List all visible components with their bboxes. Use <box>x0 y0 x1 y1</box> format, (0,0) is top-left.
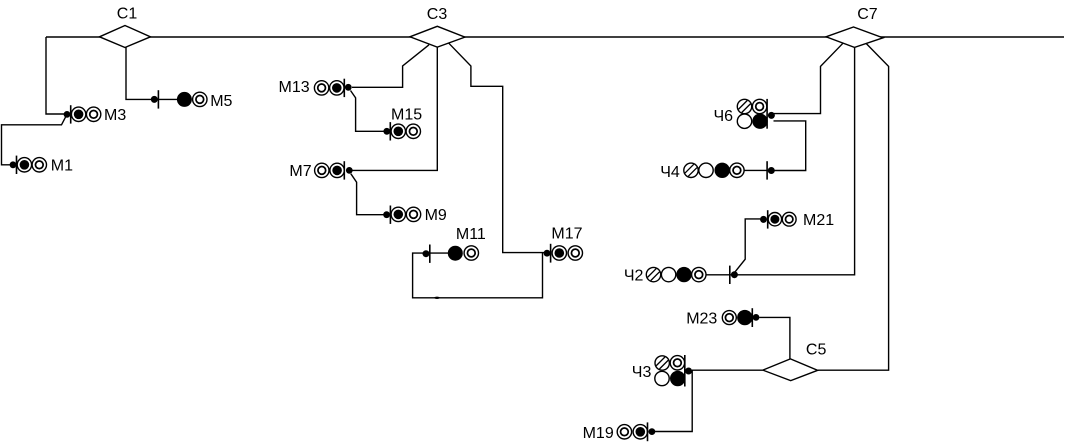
svg-text:Ч6: Ч6 <box>714 108 734 125</box>
svg-text:C5: C5 <box>806 341 827 358</box>
wire M7 junction down to M9 <box>351 174 384 215</box>
wire C7 center branch down to Ch2 <box>737 47 855 274</box>
svg-text:M11: M11 <box>456 226 486 243</box>
wire M13 junction down to M15 <box>351 91 385 132</box>
signal M11 <box>423 245 479 263</box>
svg-text:Ч4: Ч4 <box>660 164 680 181</box>
wire M21 branch down to Ch2 junction <box>735 219 761 272</box>
switch C7 diamond <box>826 27 883 47</box>
wire C1 left branch down to M3 <box>46 37 64 114</box>
svg-text:M13: M13 <box>279 79 310 96</box>
wire C3 left diagonal branch to M13 <box>352 45 429 88</box>
svg-text:M1: M1 <box>51 158 73 175</box>
wire Ch6 junction down to Ch4 <box>774 121 806 171</box>
svg-text:C7: C7 <box>857 6 878 23</box>
svg-text:Ч3: Ч3 <box>632 364 652 381</box>
svg-text:M9: M9 <box>425 207 447 224</box>
switch C3 diamond <box>410 26 465 47</box>
signal M19 <box>617 422 655 441</box>
signal Ch4 <box>681 160 775 180</box>
wire M11 loop to M17 <box>413 253 543 298</box>
signal M7 <box>315 161 353 179</box>
svg-text:C1: C1 <box>117 5 138 22</box>
signal M5 <box>151 90 207 108</box>
svg-text:M5: M5 <box>210 93 232 110</box>
signal Ch6 <box>734 96 775 129</box>
signal M15 <box>383 122 420 140</box>
signal Ch3 <box>652 353 692 387</box>
signal M17 <box>544 244 583 263</box>
signal M13 <box>314 79 351 97</box>
signal Ch2 <box>643 264 738 284</box>
wire C3 right diagonal branch to M17 <box>448 43 544 253</box>
wire main track line <box>46 36 1064 38</box>
svg-text:M15: M15 <box>391 106 422 123</box>
signal M1 <box>10 156 47 174</box>
signal M9 <box>383 206 420 224</box>
wire C7 right diagonal branch down to C5 <box>818 44 889 371</box>
svg-text:M17: M17 <box>551 226 582 243</box>
svg-text:M3: M3 <box>104 107 126 124</box>
signal M21 <box>760 210 796 228</box>
svg-text:M23: M23 <box>686 310 717 327</box>
wire C7 left diagonal branch to Ch6 <box>774 43 843 113</box>
wire C3 center branch down to M7 <box>353 47 438 170</box>
junction mark on M11 loop wire <box>434 297 440 299</box>
switch C5 diamond <box>763 359 818 381</box>
svg-text:C3: C3 <box>427 6 448 23</box>
wire M23 branch down to C5 top <box>759 317 790 359</box>
wire M3 junction down to M1 <box>2 116 67 165</box>
wire Ch3 junction to C5 left <box>692 369 763 371</box>
switch C1 diamond <box>100 26 151 48</box>
svg-text:M7: M7 <box>289 163 311 180</box>
svg-text:Ч2: Ч2 <box>624 267 644 284</box>
wire Ch3 junction down to M19 <box>655 370 692 431</box>
wire C1 bottom branch to M5 <box>126 48 177 100</box>
signal M23 <box>722 308 759 327</box>
signal M3 <box>64 105 101 123</box>
svg-text:M21: M21 <box>803 212 834 229</box>
svg-text:M19: M19 <box>583 425 614 442</box>
